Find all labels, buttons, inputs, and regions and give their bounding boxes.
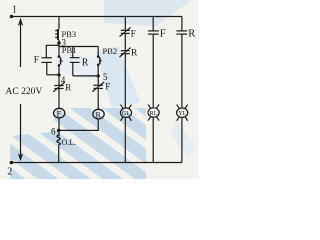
- wire coil F to node6: [58, 118, 60, 137]
- wire rejoin horizontal to node4: [47, 74, 59, 76]
- wire branch A lamp to rail: [124, 118, 126, 163]
- wire node4 NC-R to coil F: [58, 89, 60, 109]
- svg-text:R: R: [131, 49, 138, 59]
- wire R-group left upper lead: [72, 47, 74, 58]
- wire branch B to lamp RL: [152, 34, 154, 108]
- wire PB2 lower lead to node5: [97, 65, 99, 85]
- lamp GL: [120, 105, 131, 121]
- svg-text:PB3: PB3: [62, 29, 77, 39]
- svg-text:O.L.: O.L.: [62, 138, 77, 147]
- wire node5 NC-F to coil R: [97, 89, 99, 110]
- wire PB2 vertical upper: [97, 47, 99, 57]
- pushbutton PB3 (NC): [55, 29, 58, 40]
- svg-text:F: F: [57, 109, 62, 118]
- svg-text:R: R: [82, 58, 89, 69]
- wire lamp branch A vertical top: [124, 17, 126, 31]
- wire F-contact upper lead: [45, 45, 47, 57]
- svg-text:PB1: PB1: [62, 45, 77, 55]
- wire coil R down to corner: [97, 119, 99, 131]
- svg-text:F: F: [131, 30, 136, 40]
- wire O.L. to bottom rail: [58, 146, 60, 163]
- svg-text:R: R: [96, 110, 102, 119]
- node 2: [10, 161, 14, 165]
- wire PB1 lower lead to node4: [58, 66, 60, 85]
- contact F (NC, lamp branch A): [120, 27, 131, 36]
- wire branch A to lamp GL: [124, 54, 126, 108]
- node 1: [10, 15, 14, 19]
- svg-text:6: 6: [51, 127, 56, 137]
- watermark pale patch mid: [58, 52, 100, 80]
- paper background: [0, 0, 199, 179]
- node 5: [97, 74, 100, 77]
- contact R (NC interlock, under node 4): [53, 82, 65, 92]
- svg-text:RL: RL: [149, 110, 157, 117]
- svg-text:PB2: PB2: [103, 46, 118, 56]
- wire top rail (line 1): [12, 16, 183, 18]
- contact F (NC interlock, under node 5): [92, 82, 104, 92]
- wire branch B lamp to rail: [152, 118, 154, 163]
- svg-text:AC 220V: AC 220V: [6, 87, 43, 97]
- node 6: [57, 129, 61, 133]
- node 4: [57, 73, 60, 76]
- wire R-group rejoin horizontal to node5: [73, 75, 98, 77]
- contact R (NC, lamp branch A): [120, 48, 131, 57]
- svg-text:F: F: [34, 55, 39, 65]
- overload O.L. heater: [57, 135, 60, 146]
- wire lamp branch C vertical top: [181, 17, 183, 31]
- wire left split horizontal node3-to-F: [46, 44, 59, 46]
- wire lamp branch B vertical top: [152, 17, 154, 31]
- pushbutton PB1 (NO): [58, 55, 63, 66]
- contact R (NO, self-holding): [70, 58, 80, 63]
- svg-text:F: F: [160, 28, 166, 39]
- wire F-contact lower lead: [46, 63, 48, 75]
- svg-text:2: 2: [7, 167, 12, 178]
- lamp YL: [177, 105, 188, 121]
- wire PB1 upper lead: [58, 46, 60, 56]
- svg-text:R: R: [65, 82, 71, 92]
- wire branch C lamp to rail: [181, 118, 183, 163]
- wire right split horizontal node3-to-PB2 branch: [59, 46, 98, 48]
- wire R-group left lower lead: [72, 62, 74, 76]
- wire PB3-to-node3: [58, 40, 60, 46]
- lamp RL: [148, 104, 159, 120]
- node 3: [57, 41, 60, 44]
- svg-text:5: 5: [103, 72, 108, 82]
- svg-text:R: R: [188, 28, 195, 39]
- wire AC feeder lower segment: [20, 104, 22, 156]
- wire bottom rail (line 2): [11, 162, 182, 164]
- arrow down on AC feeder: [18, 153, 23, 161]
- pushbutton PB2 (NO): [97, 55, 102, 66]
- coil F: [54, 108, 65, 118]
- wire AC feeder upper segment: [20, 24, 22, 67]
- watermark top-right wash: [104, 0, 192, 26]
- svg-text:F: F: [105, 82, 110, 92]
- wire branch A between contacts: [124, 34, 126, 51]
- wire main vertical rail-to-PB3: [58, 17, 60, 30]
- contact F (NO, lamp branch B): [148, 31, 159, 34]
- svg-text:YL: YL: [178, 110, 186, 117]
- contact F (NO, self-holding): [42, 58, 52, 63]
- svg-text:1: 1: [12, 5, 17, 16]
- watermark diagonal band center-right: [96, 46, 140, 108]
- svg-text:GL: GL: [122, 110, 130, 117]
- wire node6 horizontal: [59, 129, 99, 131]
- wire branch C to lamp YL: [181, 34, 183, 108]
- contact R (NO, lamp branch C): [176, 31, 187, 34]
- coil R: [93, 109, 104, 119]
- arrow up on AC feeder: [18, 18, 23, 26]
